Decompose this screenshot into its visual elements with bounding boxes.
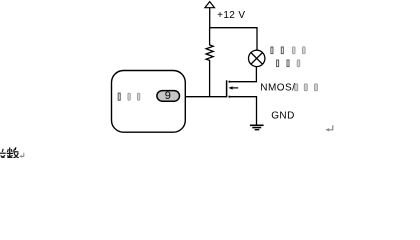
svg-text:NMOS/: NMOS/ — [260, 83, 295, 94]
svg-text:+12 V: +12 V — [217, 10, 245, 21]
svg-text:GND: GND — [271, 111, 295, 122]
svg-text:9: 9 — [165, 90, 171, 102]
